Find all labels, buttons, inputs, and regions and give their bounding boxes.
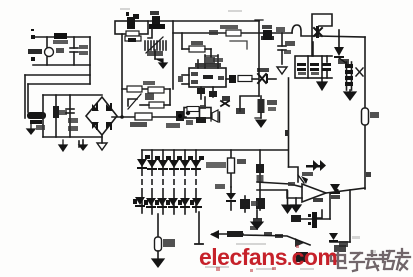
wire from V3 down arrow	[282, 191, 293, 213]
wire inverting input down	[291, 198, 301, 212]
wire op-amp output	[326, 188, 365, 193]
label AC220V	[28, 49, 42, 54]
wire top rail of mains input block	[33, 36, 90, 38]
buzzer HA	[211, 110, 220, 122]
IC U1 output chain diode VD8	[226, 75, 258, 83]
ground hollow arrow under bridge	[97, 135, 107, 150]
node L terminal	[31, 29, 35, 39]
wire output to stub	[268, 78, 276, 80]
IC U1 left pins	[178, 75, 189, 84]
transistor V2 junction	[166, 111, 184, 128]
wire bottom rail of mains block	[33, 64, 90, 66]
IC U1 timer box	[189, 68, 226, 87]
ground arrow under T1	[27, 124, 35, 134]
wire bridge top rail	[43, 94, 102, 96]
scan noise	[120, 8, 376, 270]
junction dot	[120, 115, 124, 119]
watermark chinese characters	[331, 249, 410, 271]
ground arrow under T2	[344, 90, 356, 100]
startup loop box	[312, 14, 332, 56]
ground arrow under R11	[255, 113, 266, 127]
wire stub right bottom	[339, 241, 348, 247]
ground bent arrow under RP1	[155, 50, 167, 68]
diode VD13	[329, 233, 346, 252]
capacitor under op-amp	[313, 198, 323, 202]
LED row 2	[133, 197, 202, 208]
transistor V3 column	[256, 150, 265, 210]
diode VD7 on mid bus	[261, 25, 274, 40]
capacitor C6 electrolytic on right bus	[362, 108, 380, 125]
IC U1 bottom pins	[197, 87, 217, 107]
IC U1 top pins	[195, 55, 223, 68]
resistor R3 box	[149, 24, 165, 29]
right bus wire	[364, 37, 366, 189]
zener VD10	[221, 96, 230, 106]
label 220	[36, 125, 45, 130]
wire L under R4	[230, 41, 247, 49]
resistor R8	[140, 89, 170, 108]
wire op-amp feed	[289, 167, 299, 182]
wire hook to right	[292, 25, 318, 36]
inductor L1 with pot arrow	[128, 93, 154, 109]
wire top bus segment	[148, 20, 259, 22]
wire mid bus	[173, 32, 292, 34]
diode VD5 on loop top	[126, 12, 139, 29]
wire cap bank top feed	[312, 42, 314, 56]
transformer T1 primary	[27, 112, 46, 124]
wire stair inner drop	[27, 84, 29, 112]
component marks on bottom run	[250, 218, 304, 247]
wire vertical x259	[255, 20, 263, 96]
transformer T2	[345, 62, 363, 90]
wire right drop from bus	[285, 78, 289, 167]
resistor R1 vertical branch	[53, 95, 67, 137]
ground arrow A	[59, 140, 67, 151]
snubber network loop	[115, 21, 148, 36]
wire drop x173	[172, 21, 174, 89]
capacitor C7 column	[251, 210, 263, 229]
resistor R7 row	[122, 81, 170, 93]
node N terminal	[31, 57, 35, 61]
component blob under watermark	[296, 252, 308, 262]
resistor R4 on mid bus	[209, 25, 241, 36]
ground arrow B	[79, 140, 87, 150]
signal arrows	[302, 160, 326, 176]
resistor R5 10k	[182, 33, 215, 64]
resistor R6 on main bus	[130, 113, 152, 127]
wire x199 drop with bar	[195, 212, 203, 244]
capacitor C1	[70, 37, 88, 65]
ground arrow under cap bank	[317, 78, 327, 90]
wire elbow bottom	[330, 241, 350, 243]
capacitor C5 column	[240, 196, 258, 212]
diode VD12 on output	[330, 184, 340, 199]
wire drop x350	[349, 190, 351, 242]
capacitor bank box	[295, 56, 332, 78]
diode VD9 X junction	[257, 68, 269, 83]
zener VD11	[215, 184, 236, 210]
capacitor bank elements	[297, 63, 331, 75]
resistor R11 hatched vertical	[258, 96, 278, 113]
capacitor C3 12V branch	[278, 33, 295, 64]
capacitor C2 vertical branch	[66, 95, 78, 137]
junction blob	[236, 108, 245, 114]
diode VD15	[334, 30, 349, 64]
resistor R9 vertical	[206, 150, 246, 187]
wire elbow down from x259	[240, 96, 259, 111]
diode VD14 in loop	[314, 26, 322, 38]
bottom-left arrow wire	[210, 230, 243, 239]
resistor R2 below loop	[125, 36, 141, 42]
ground hollow triangle	[277, 67, 287, 74]
wire from loop to right bus	[318, 36, 365, 37]
fuse F1 on top rail	[53, 33, 68, 44]
LED array top rail	[142, 149, 288, 151]
diode VD6 with label	[150, 11, 160, 25]
op-amp U2	[257, 175, 326, 202]
main bus wire	[112, 116, 186, 118]
LED column wires	[142, 150, 196, 214]
ground arrow under C4	[152, 259, 164, 267]
wire stair 1	[25, 74, 90, 76]
wire bridge left rail	[42, 95, 44, 137]
wire bottom run	[243, 235, 310, 245]
capacitor C4 electrolytic	[155, 214, 176, 259]
wire bridge bottom rail	[43, 136, 102, 138]
watermark elecfans.com	[199, 244, 337, 271]
transistor V1	[45, 37, 65, 65]
relay K1 box	[184, 105, 211, 125]
wire stair left drop	[24, 75, 26, 118]
wire right drop	[89, 37, 91, 84]
potentiometer RP1 hatched	[145, 37, 166, 56]
bridge rectifier VD1-VD4 diamond	[86, 97, 117, 135]
wire stair 2	[28, 83, 90, 85]
junction tick on right bus	[366, 172, 371, 177]
wire step to VR	[148, 29, 152, 38]
label near hook	[276, 27, 285, 32]
LED row 1	[137, 155, 204, 170]
resistor R10 bottom right	[291, 215, 330, 222]
zener VD16 right	[308, 210, 322, 228]
LED column dashed gaps	[138, 176, 200, 188]
wire loop drop	[121, 34, 123, 116]
